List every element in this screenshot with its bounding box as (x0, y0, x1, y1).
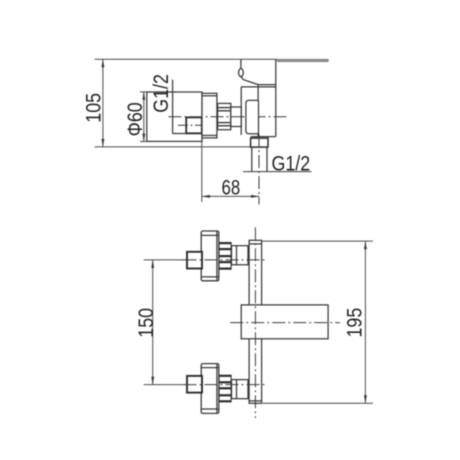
G1/2 bottom label underline (243, 171, 312, 173)
rear bracket vertical line (240, 87, 242, 135)
serrated nut (side view) (218, 103, 231, 129)
bottom knob serration (219, 375, 231, 403)
knob base rect (side view) (202, 93, 217, 138)
dim 150 line with arrows (151, 260, 154, 385)
dim 68 extension line left (201, 141, 203, 203)
dim 195 line with arrows (364, 241, 367, 403)
wall knob inner step bottom (173, 133, 202, 135)
top knob centerline (184, 259, 267, 261)
top knob serration (219, 242, 231, 270)
svg-text:G1/2: G1/2 (272, 152, 311, 176)
G1/2 nipple (thick small rect) (186, 117, 202, 133)
column top cap line (249, 243, 262, 245)
stem between nut and plate (231, 107, 241, 127)
bottom knob tip (187, 376, 202, 393)
spout box centerline (230, 322, 340, 324)
dim phi60 line with arrows (142, 92, 145, 142)
svg-text:68: 68 (222, 177, 241, 200)
middle spout box (241, 305, 328, 339)
dim 150 extension lines (144, 260, 185, 385)
column vertical centerline (254, 227, 256, 418)
top knob cylinder (232, 246, 249, 265)
top knob head (201, 231, 219, 281)
bottom knob head (201, 364, 219, 414)
handle cap lower link (241, 77, 258, 85)
svg-text:150: 150 (134, 308, 158, 338)
wall knob outer body (side view) (147, 92, 202, 141)
dim 195 extension lines (262, 241, 373, 403)
dim 68 line with arrows (202, 195, 259, 198)
nipple centerline (178, 124, 210, 126)
body top edge (241, 86, 276, 88)
dim 105 extension line top (95, 58, 277, 60)
outlet centerline vertical (258, 134, 260, 205)
column bottom cap line (249, 400, 262, 402)
main centerline (horizontal axis) (169, 116, 289, 118)
dim phi60 extension lines (140, 92, 150, 142)
svg-text:G1/2: G1/2 (149, 74, 173, 113)
handle pivot ellipse (239, 69, 244, 77)
body bottom edge (251, 136, 276, 138)
wall knob inner step vertical (172, 80, 174, 134)
handle cap left vertical (240, 59, 242, 69)
handle cap bottom edge (258, 84, 276, 86)
top knob tip (187, 252, 202, 269)
svg-text:Φ60: Φ60 (123, 102, 147, 136)
column bar (249, 240, 262, 403)
outlet nut (251, 138, 268, 147)
dim 105 line with arrows (101, 59, 104, 147)
body left edge (257, 85, 259, 137)
lever bar (gray) (277, 59, 329, 62)
outlet tube sides (252, 147, 267, 172)
escutcheon plate (rounded rect, on top) (246, 100, 259, 133)
bottom knob centerline (184, 384, 267, 386)
dim 105 extension line bottom (95, 146, 268, 148)
svg-text:105: 105 (82, 93, 106, 123)
bottom knob cylinder (232, 380, 249, 399)
body right edge (275, 59, 277, 136)
svg-text:195: 195 (343, 308, 367, 338)
